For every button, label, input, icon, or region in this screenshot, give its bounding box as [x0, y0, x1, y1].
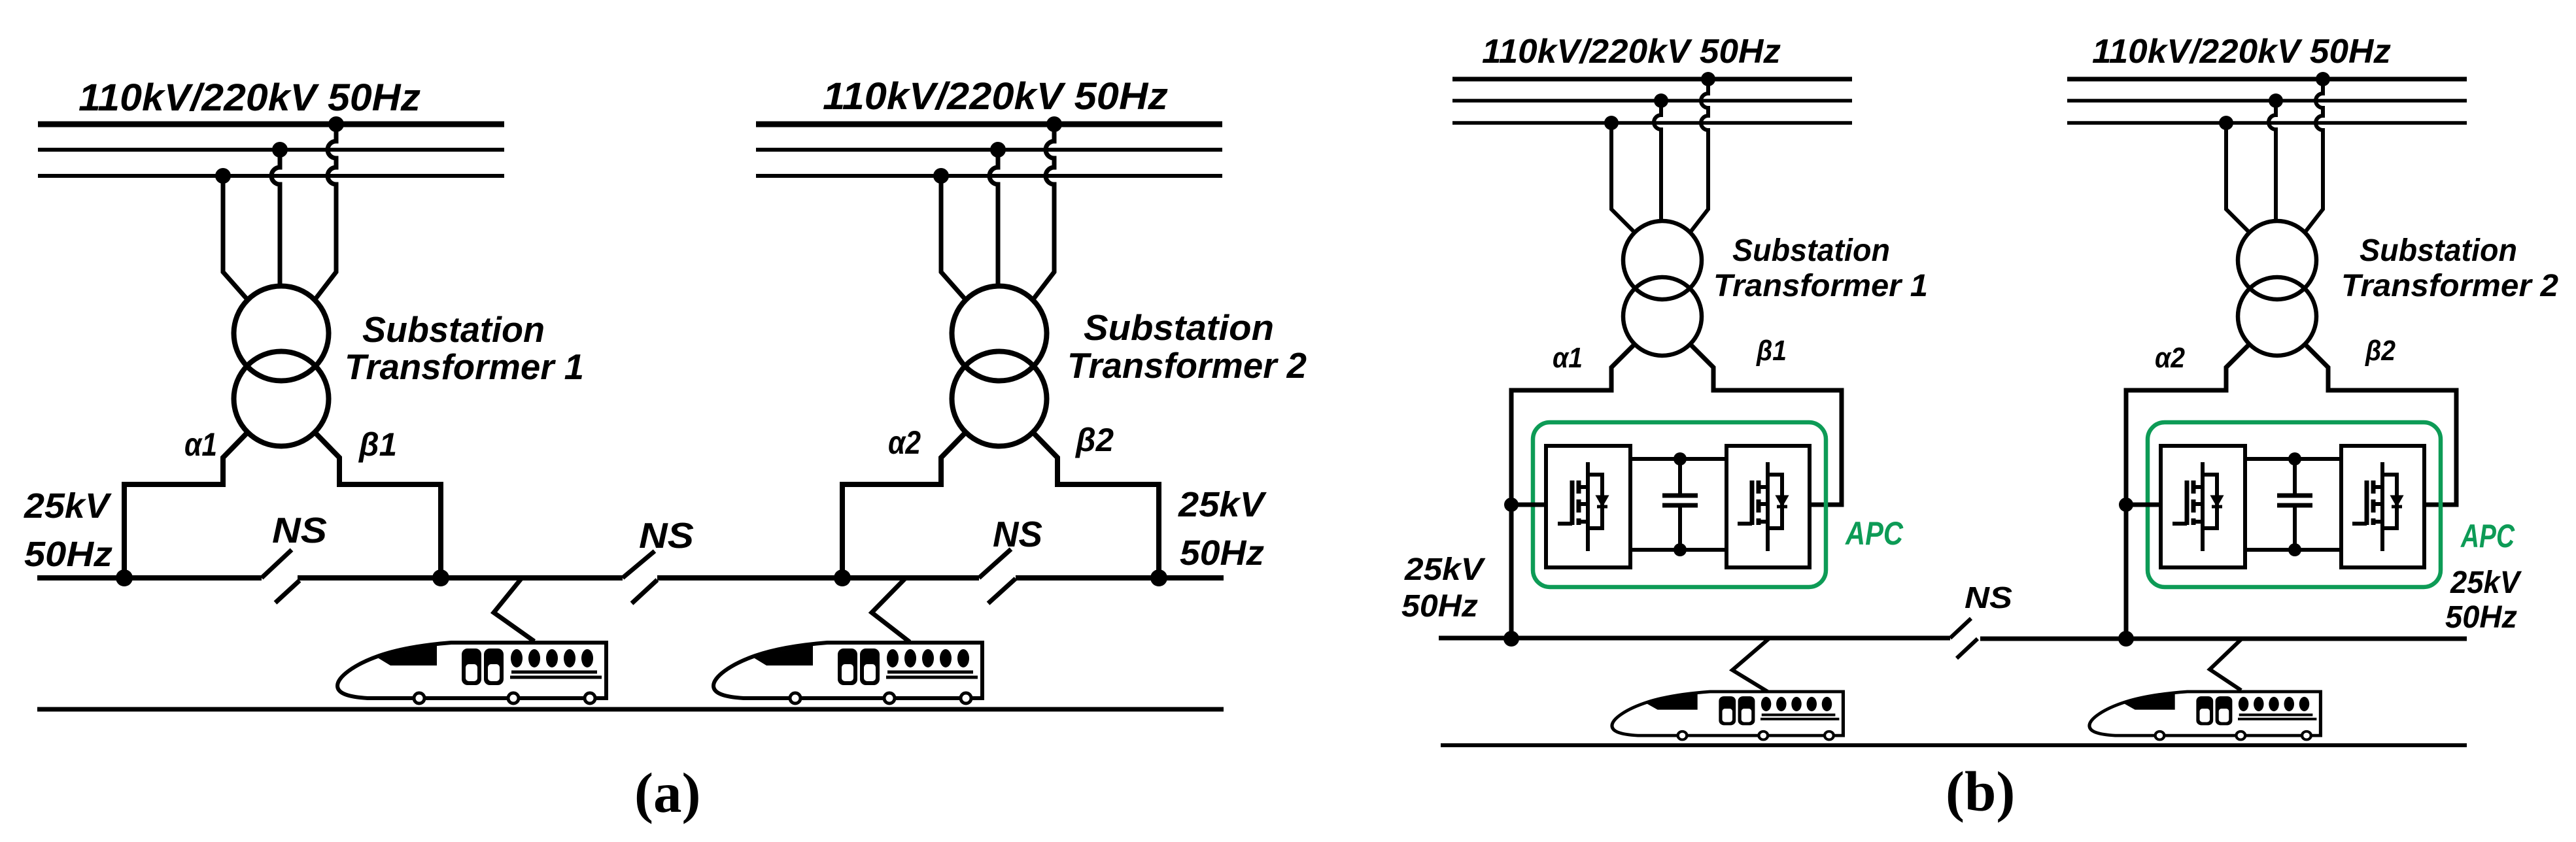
svg-text:(b): (b)	[1946, 760, 2015, 823]
svg-text:25kV: 25kV	[2450, 565, 2522, 600]
svg-text:β1: β1	[358, 426, 397, 463]
svg-text:25kV: 25kV	[1404, 552, 1486, 587]
svg-text:110kV/220kV 50Hz: 110kV/220kV 50Hz	[823, 75, 1168, 118]
svg-text:50Hz: 50Hz	[2445, 600, 2517, 635]
svg-text:NS: NS	[993, 514, 1042, 554]
svg-text:25kV: 25kV	[1178, 485, 1267, 524]
svg-text:α2: α2	[888, 424, 921, 461]
svg-text:NS: NS	[1965, 581, 2012, 615]
svg-text:Transformer 2: Transformer 2	[1067, 345, 1307, 386]
svg-text:110kV/220kV 50Hz: 110kV/220kV 50Hz	[78, 76, 421, 119]
svg-text:Transformer 2: Transformer 2	[2341, 269, 2558, 303]
svg-text:Substation: Substation	[1732, 233, 1890, 268]
svg-text:Transformer 1: Transformer 1	[345, 346, 584, 387]
svg-text:50Hz: 50Hz	[24, 535, 112, 574]
svg-text:β2: β2	[2365, 335, 2396, 367]
svg-text:(a): (a)	[634, 761, 700, 824]
svg-text:Transformer 1: Transformer 1	[1713, 269, 1928, 303]
svg-text:50Hz: 50Hz	[1401, 589, 1478, 624]
svg-text:β2: β2	[1074, 422, 1114, 458]
svg-text:Substation: Substation	[1084, 307, 1274, 348]
svg-text:APC: APC	[1844, 515, 1903, 552]
svg-text:50Hz: 50Hz	[1180, 533, 1264, 573]
svg-text:α1: α1	[1553, 342, 1583, 374]
svg-text:NS: NS	[272, 510, 327, 550]
svg-text:110kV/220kV 50Hz: 110kV/220kV 50Hz	[1482, 33, 1781, 71]
svg-text:β1: β1	[1756, 335, 1787, 367]
svg-text:110kV/220kV 50Hz: 110kV/220kV 50Hz	[2092, 33, 2391, 71]
svg-text:Substation: Substation	[362, 309, 545, 350]
svg-text:25kV: 25kV	[24, 486, 112, 526]
svg-text:APC: APC	[2460, 518, 2515, 554]
svg-text:α2: α2	[2155, 342, 2185, 374]
svg-text:NS: NS	[639, 515, 694, 556]
svg-text:Substation: Substation	[2360, 233, 2517, 268]
svg-text:α1: α1	[184, 426, 217, 463]
